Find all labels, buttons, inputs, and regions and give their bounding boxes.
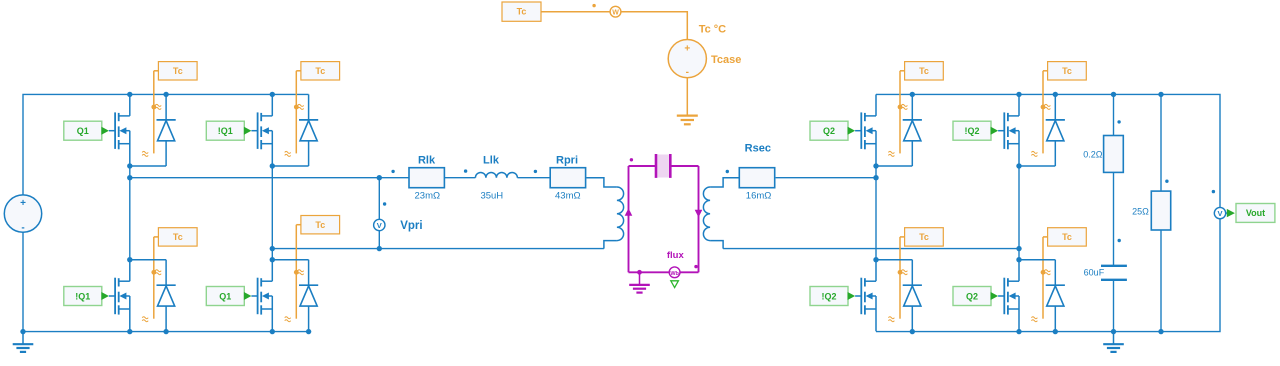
transistor (MOSFET) !Q2 (bottom-left)	[855, 260, 876, 332]
node marker dot (core element left)	[630, 158, 633, 161]
antiparallel diode of switch cell S2 (left bridge top-right)	[299, 94, 318, 166]
core permeance element (air gap / core reluctance)	[656, 154, 670, 178]
capacitor 60uF	[1084, 266, 1127, 280]
svg-text:Rlk: Rlk	[418, 155, 436, 167]
Tc thermal tag label of switch cell S8 (right bridge bottom-right)	[1048, 228, 1087, 246]
heat flow meter W	[610, 6, 621, 17]
magnetic circuit loop (core path)	[629, 166, 699, 272]
resistor Rpri	[550, 155, 585, 202]
resistor Rlk	[409, 155, 444, 202]
gate signal tag !Q2 of switch cell S6 (right bridge top-right)	[953, 121, 998, 140]
resistor 25 Ohm (load)	[1132, 94, 1171, 331]
svg-text:43mΩ: 43mΩ	[555, 190, 581, 201]
transistor (MOSFET) !Q2 (top-right)	[998, 94, 1019, 166]
Vout signal tag (green)	[1226, 204, 1275, 223]
thermal terminal marker (MOSFET junction) of switch cell S8 (right bridge bottom-right)	[1044, 270, 1050, 275]
svg-text:Vpri: Vpri	[400, 220, 422, 232]
svg-text:Tc: Tc	[1062, 66, 1072, 76]
svg-text:V: V	[1217, 209, 1222, 218]
Tc thermal tag label of switch cell S2 (left bridge top-right)	[301, 62, 340, 80]
svg-text:W: W	[612, 9, 619, 16]
gate signal tag !Q1 of switch cell S2 (left bridge top-right)	[206, 121, 251, 140]
thermal terminal marker (MOSFET junction) of switch cell S1 (left bridge top-left)	[155, 104, 161, 109]
svg-text:!Q1: !Q1	[75, 291, 90, 301]
transistor (MOSFET) Q1 (bottom-right)	[251, 260, 272, 332]
svg-text:16mΩ: 16mΩ	[746, 190, 772, 201]
svg-text:Wb: Wb	[670, 271, 679, 277]
svg-text:Rsec: Rsec	[745, 143, 771, 155]
transformer primary winding	[586, 178, 623, 249]
wire: Rlk to Llk	[444, 177, 475, 179]
junction dots (bottom rails)	[127, 329, 1164, 334]
flux signal output arrow (green)	[671, 281, 679, 288]
gate signal tag Q1 of switch cell S1 (left bridge top-left)	[64, 121, 109, 140]
thermal terminal marker (case) of switch cell S1 (left bridge top-left)	[142, 151, 148, 156]
wire: leg A interconnect vertical	[129, 166, 131, 260]
transistor (MOSFET) !Q1 (bottom-left)	[109, 260, 130, 332]
antiparallel diode of switch cell S6 (right bridge top-right)	[1046, 94, 1065, 166]
MMF direction arrow (primary leg, up)	[625, 208, 633, 216]
Tc thermal tag label of switch cell S1 (left bridge top-left)	[158, 62, 197, 80]
wire: drain node stub of switch cell S3 (left bridge bottom-left)	[127, 257, 166, 262]
voltmeter Vout	[1214, 207, 1225, 218]
thermal terminal marker (case) of switch cell S8 (right bridge bottom-right)	[1031, 317, 1037, 322]
thermal terminal marker (MOSFET junction) of switch cell S4 (left bridge bottom-right)	[298, 270, 304, 275]
svg-text:Tc: Tc	[173, 232, 183, 242]
thermal port wire of switch cell S6 (right bridge top-right)	[1041, 71, 1048, 154]
wire: capacitor to bottom rail	[1113, 281, 1115, 332]
svg-text:0.2Ω: 0.2Ω	[1083, 150, 1103, 160]
node marker dot (Vout branch)	[1212, 190, 1215, 193]
svg-text:60uF: 60uF	[1084, 267, 1105, 277]
svg-text:!Q2: !Q2	[821, 291, 836, 301]
svg-text:+: +	[684, 44, 690, 55]
thermal terminal marker (case) of switch cell S5 (right bridge top-left)	[888, 151, 894, 156]
voltmeter Vpri	[374, 178, 423, 249]
wire: left DC-bus negative rail (bottom)	[23, 232, 309, 331]
thermal port wire of switch cell S4 (left bridge bottom-right)	[294, 225, 301, 319]
thermal port wire of switch cell S5 (right bridge top-left)	[898, 71, 905, 154]
antiparallel diode of switch cell S8 (right bridge bottom-right)	[1046, 260, 1065, 332]
thermal terminal marker (MOSFET junction) of switch cell S2 (left bridge top-right)	[298, 104, 304, 109]
thermal terminal marker (case) of switch cell S7 (right bridge bottom-left)	[888, 317, 894, 322]
thermal terminal marker (MOSFET junction) of switch cell S7 (right bridge bottom-left)	[901, 270, 907, 275]
svg-text:Tc: Tc	[919, 66, 929, 76]
thermal port wire of switch cell S7 (right bridge bottom-left)	[898, 237, 905, 319]
wire: left bridge output node B rail to primary winding (y=249)	[272, 248, 604, 250]
ground (output)	[1103, 332, 1124, 352]
svg-text:Rpri: Rpri	[556, 155, 578, 167]
wire: drain node stub of switch cell S8 (right bridge bottom-right)	[1016, 257, 1055, 262]
gate signal tag Q2 of switch cell S5 (right bridge top-left)	[810, 121, 855, 140]
wire: leg B interconnect vertical	[271, 166, 273, 260]
svg-text:Vout: Vout	[1246, 208, 1265, 218]
thermal terminal marker (MOSFET junction) of switch cell S3 (left bridge bottom-left)	[155, 270, 161, 275]
transistor (MOSFET) !Q1 (top-right)	[251, 94, 272, 166]
transistor (MOSFET) Q2 (bottom-right)	[998, 260, 1019, 332]
wire: source node stub of switch cell S5 (right bridge top-left)	[873, 163, 912, 168]
wire: secondary bottom rail to right bridge node D	[723, 248, 1019, 250]
wire: source node stub of switch cell S1 (left bridge top-left)	[127, 163, 166, 168]
antiparallel diode of switch cell S4 (left bridge bottom-right)	[299, 260, 318, 332]
svg-text:flux: flux	[667, 250, 685, 261]
wire: 0.2 Ohm to 60uF capacitor	[1113, 172, 1115, 265]
Tc thermal from-tag (top source)	[502, 2, 541, 21]
resistor Rsec	[739, 143, 774, 202]
thermal terminal marker (case) of switch cell S4 (left bridge bottom-right)	[285, 317, 291, 322]
thermal terminal marker (case) of switch cell S6 (right bridge top-right)	[1031, 151, 1037, 156]
wire: left DC-bus positive rail (top)	[23, 94, 309, 194]
wire: leg C interconnect vertical	[875, 166, 877, 260]
transformer secondary winding	[703, 178, 739, 249]
thermal terminal marker (case) of switch cell S2 (left bridge top-right)	[285, 151, 291, 156]
svg-text:25Ω: 25Ω	[1132, 207, 1149, 217]
node marker dot (Vpri +)	[383, 202, 386, 205]
thermal terminal marker (MOSFET junction) of switch cell S5 (right bridge top-left)	[901, 104, 907, 109]
transistor (MOSFET) Q2 (top-left)	[855, 94, 876, 166]
node marker dots (component polarity markers)	[391, 120, 1168, 242]
svg-text:V: V	[377, 221, 382, 230]
svg-text:Tc: Tc	[173, 66, 183, 76]
svg-text:!Q2: !Q2	[964, 126, 979, 136]
gate signal tag !Q1 of switch cell S3 (left bridge bottom-left)	[64, 287, 109, 306]
wire: leg D interconnect vertical	[1018, 166, 1020, 260]
Tc thermal tag label of switch cell S4 (left bridge bottom-right)	[301, 216, 340, 234]
svg-text:Tc: Tc	[1062, 232, 1072, 242]
gate signal tag Q1 of switch cell S4 (left bridge bottom-right)	[206, 287, 251, 306]
Tc thermal tag label of switch cell S5 (right bridge top-left)	[905, 62, 944, 80]
node marker dot (secondary winding top terminal)	[726, 170, 729, 173]
Tc thermal tag label of switch cell S6 (right bridge top-right)	[1048, 62, 1087, 80]
antiparallel diode of switch cell S1 (left bridge top-left)	[157, 94, 176, 166]
junction dots (top rails)	[127, 92, 1164, 97]
svg-text:+: +	[20, 198, 26, 209]
ground (thermal reference)	[677, 116, 698, 125]
wire: drain node stub of switch cell S7 (right bridge bottom-left)	[873, 257, 912, 262]
ground (left DC bus)	[20, 329, 25, 334]
wire: Tcase to thermal ground	[686, 78, 688, 115]
thermal terminal marker (case) of switch cell S3 (left bridge bottom-left)	[142, 317, 148, 322]
svg-text:Tc: Tc	[517, 7, 527, 17]
wire: secondary top lead to Rsec	[723, 177, 739, 179]
transistor (MOSFET) Q1 (top-left)	[109, 94, 130, 166]
thermal port wire of switch cell S1 (left bridge top-left)	[151, 71, 158, 154]
wire: right DC-bus top rail and output loop	[876, 94, 1220, 331]
MMF direction arrow (secondary leg, down)	[695, 210, 703, 218]
thermal terminal marker (MOSFET junction) of switch cell S6 (right bridge top-right)	[1044, 104, 1050, 109]
antiparallel diode of switch cell S7 (right bridge bottom-left)	[903, 260, 922, 332]
wire: Llk to Rpri	[517, 177, 550, 179]
svg-text:Tc: Tc	[315, 220, 325, 230]
thermal port wire of switch cell S8 (right bridge bottom-right)	[1041, 237, 1048, 319]
svg-text:Llk: Llk	[483, 155, 500, 167]
temperature source Tcase	[668, 40, 741, 78]
svg-text:Q1: Q1	[219, 291, 231, 301]
Tc thermal tag label of switch cell S7 (right bridge bottom-left)	[905, 228, 944, 246]
svg-text:-: -	[21, 222, 24, 233]
junction dots (mid rails)	[127, 175, 1022, 251]
node marker dot (thermal wire)	[592, 4, 595, 7]
node marker dot (magnetic loop bottom-right)	[694, 265, 697, 268]
svg-text:Q2: Q2	[966, 291, 978, 301]
wire: drain node stub of switch cell S4 (left bridge bottom-right)	[270, 257, 309, 262]
resistor 0.2 Ohm (output ESR branch)	[1083, 94, 1123, 172]
wire: Tc tag to heat flow meter	[541, 11, 610, 13]
ground (magnetic circuit reference)	[629, 270, 650, 293]
svg-text:Tc °C: Tc °C	[699, 23, 726, 35]
wire: source node stub of switch cell S2 (left bridge top-right)	[270, 163, 309, 168]
svg-text:Tc: Tc	[919, 232, 929, 242]
wire: Rsec to right bridge node C	[776, 177, 876, 179]
wire: source node stub of switch cell S6 (right bridge top-right)	[1016, 163, 1055, 168]
svg-text:Q2: Q2	[823, 126, 835, 136]
gate signal tag !Q2 of switch cell S7 (right bridge bottom-left)	[810, 287, 855, 306]
thermal port wire of switch cell S2 (left bridge top-right)	[294, 71, 301, 154]
gate signal tag Q2 of switch cell S8 (right bridge bottom-right)	[953, 287, 998, 306]
svg-text:Tcase: Tcase	[711, 54, 741, 66]
svg-text:35uH: 35uH	[480, 190, 503, 201]
inductor Llk	[475, 155, 517, 202]
wire: heat flow meter to Tcase source	[621, 12, 687, 40]
thermal port wire of switch cell S3 (left bridge bottom-left)	[151, 237, 158, 319]
wire: left bridge output node A to Rlk (mid rail, y=178)	[130, 177, 409, 179]
svg-text:Tc: Tc	[315, 66, 325, 76]
svg-text:-: -	[686, 67, 689, 78]
antiparallel diode of switch cell S5 (right bridge top-left)	[903, 94, 922, 166]
svg-text:23mΩ: 23mΩ	[415, 190, 441, 201]
svg-text:Q1: Q1	[77, 126, 89, 136]
antiparallel diode of switch cell S3 (left bridge bottom-left)	[157, 260, 176, 332]
svg-text:!Q1: !Q1	[218, 126, 233, 136]
DC voltage source V_dc (left)	[4, 195, 41, 233]
Tc thermal tag label of switch cell S3 (left bridge bottom-left)	[158, 228, 197, 246]
flux meter Wb	[667, 250, 685, 278]
